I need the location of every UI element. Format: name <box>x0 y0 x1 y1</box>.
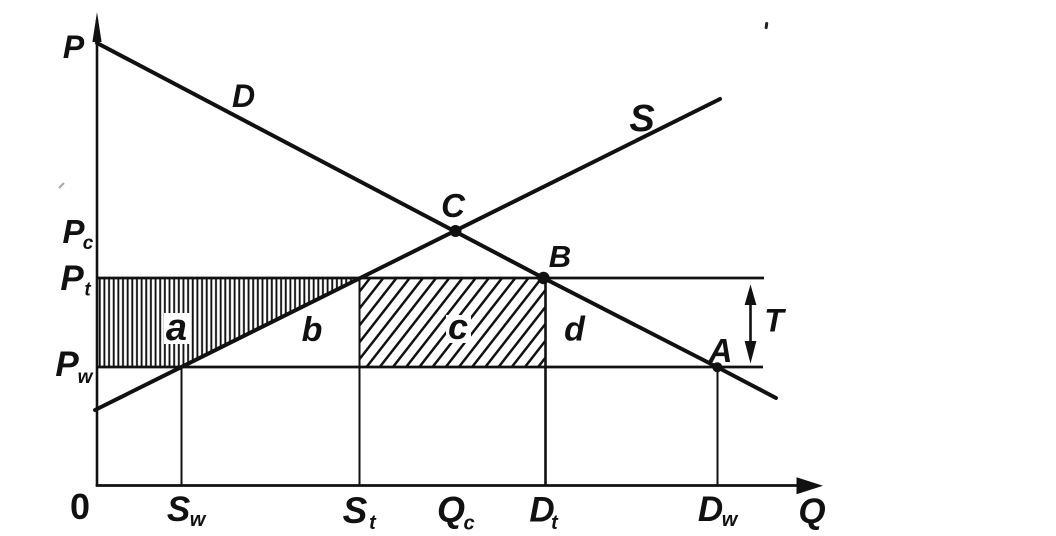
svg-text:c: c <box>83 233 94 254</box>
point C dot <box>450 225 462 237</box>
svg-text:c: c <box>448 306 468 347</box>
svg-text:D: D <box>232 78 255 114</box>
svg-text:b: b <box>302 311 323 349</box>
tariff T double arrow <box>749 298 752 347</box>
svg-text:w: w <box>722 509 739 531</box>
supply curve S <box>95 99 720 410</box>
vertical line at Dw <box>717 367 719 485</box>
svg-text:D: D <box>698 490 723 529</box>
svg-text:T: T <box>764 303 786 339</box>
svg-text:S: S <box>629 98 654 140</box>
svg-text:w: w <box>190 509 207 531</box>
region a vertical hatch (trapezoid between Pt, Pw, axis and supply) <box>97 278 360 367</box>
x-axis <box>96 484 800 487</box>
faint scan speck left <box>59 183 64 188</box>
svg-text:a: a <box>166 307 187 349</box>
svg-text:P: P <box>63 29 85 65</box>
vertical line at Sw <box>181 367 183 485</box>
svg-text:0: 0 <box>70 486 90 527</box>
svg-text:c: c <box>463 513 474 535</box>
svg-text:A: A <box>708 332 733 369</box>
price line Pt <box>97 277 764 280</box>
point B dot <box>537 272 549 284</box>
vertical line at St <box>359 278 361 485</box>
svg-text:C: C <box>441 187 466 224</box>
demand curve D <box>97 43 776 398</box>
price line Pw <box>97 366 763 369</box>
label pad for c <box>446 315 471 343</box>
vertical line at Dt <box>544 278 547 485</box>
svg-text:P: P <box>60 259 84 298</box>
label pad for a <box>164 313 191 344</box>
stray scan speck top right <box>764 22 768 29</box>
svg-text:w: w <box>78 367 94 388</box>
svg-text:S: S <box>167 490 190 529</box>
svg-text:S: S <box>343 490 368 531</box>
x-axis arrowhead <box>797 477 824 494</box>
point A dot <box>712 362 722 372</box>
svg-text:Q: Q <box>437 489 465 530</box>
region c diagonal hatch (rectangle St-Dt between Pt and Pw) <box>361 278 546 367</box>
svg-text:P: P <box>55 345 79 384</box>
svg-text:Q: Q <box>798 492 825 531</box>
y-axis <box>96 20 99 486</box>
svg-text:d: d <box>564 311 586 349</box>
svg-text:B: B <box>549 239 571 274</box>
svg-text:t: t <box>84 280 91 301</box>
y-axis arrowhead <box>92 12 101 42</box>
